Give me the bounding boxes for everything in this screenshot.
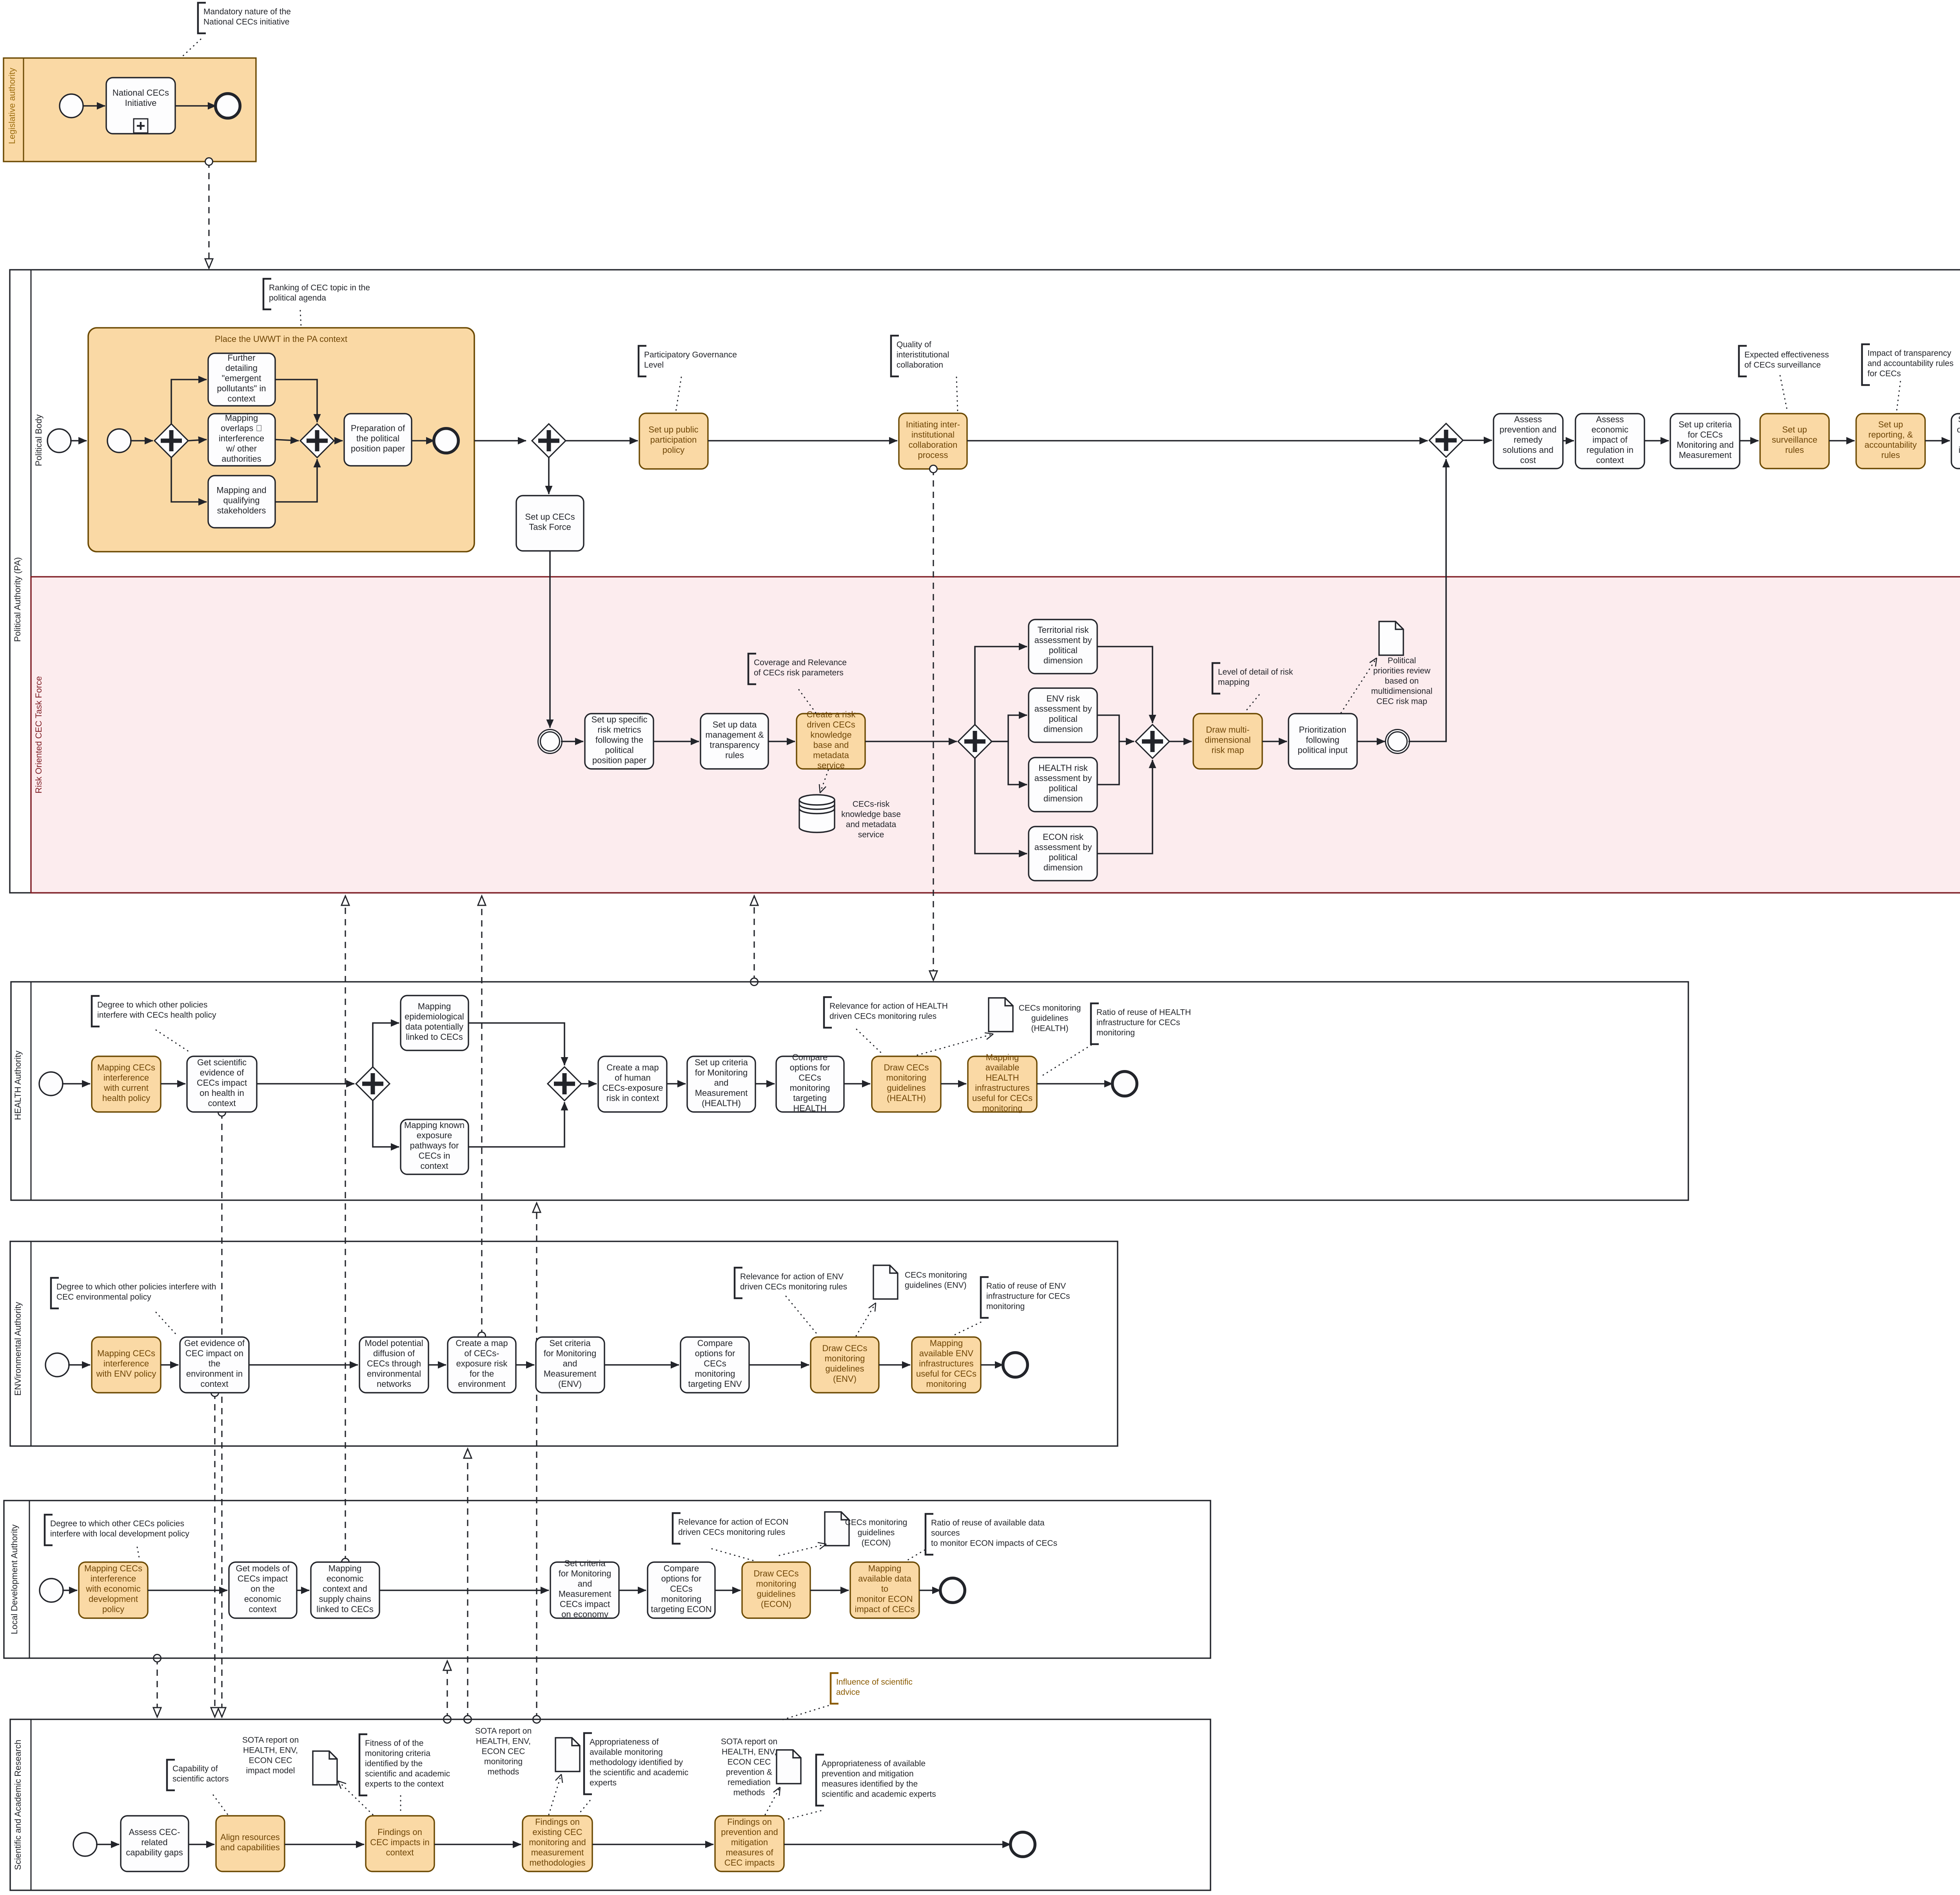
message flow HEALTH Get scientific evidence -> Scientific pool xyxy=(221,1112,222,1717)
svg-text:Local Development Authority: Local Development Authority xyxy=(9,1524,19,1634)
pool: Political Authority (PA) xyxy=(10,270,1960,893)
task: Get evidence of CEC impact on the environment xyxy=(180,1337,249,1393)
svg-text:Legislative authority: Legislative authority xyxy=(7,68,17,144)
start event (ENV) xyxy=(45,1353,69,1377)
annotation: Degree local development policy xyxy=(45,1515,53,1545)
annotation: Fitness of the monitoring criteria xyxy=(359,1734,367,1795)
annotation: Ratio of reuse of available data sources xyxy=(926,1514,933,1555)
task: Set up criteria for CECs Monitoring and Measurement xyxy=(1670,414,1740,469)
svg-text:Create a mapof CECs-exposure r: Create a mapof CECs-exposure riskfor the… xyxy=(456,1338,508,1389)
task: Draw CECs monitoring guidelines ECON xyxy=(742,1562,810,1618)
wire merge middle xyxy=(275,440,299,441)
pool: Legislative authority xyxy=(4,58,256,162)
task: Create a risk driven CECs knowledge base xyxy=(797,714,865,769)
svg-text:Set up criteriafor CECsMonitor: Set up criteriafor CECsMonitoring andMea… xyxy=(1677,420,1734,460)
message flow LocalDev Mapping economic -> task force lane xyxy=(345,896,346,1562)
task: HEALTH risk assessment xyxy=(1029,758,1097,812)
task: Set up surveillance rules xyxy=(1760,414,1829,469)
message flow Legislative -> PA pool xyxy=(208,162,209,268)
svg-text:Draw multi-dimensionalrisk map: Draw multi-dimensionalrisk map xyxy=(1205,725,1250,755)
task: Mapping and qualifying stakeholders xyxy=(208,476,275,528)
task: Model potential diffusion of CECs xyxy=(359,1337,428,1393)
message flow ENV Create a map -> task force lane xyxy=(481,896,482,1336)
pool: Scientific and Academic Research xyxy=(10,1719,1210,1890)
task: Mapping CECs interference with ENV policy xyxy=(92,1337,161,1393)
annotation: Relevance for action of ECON xyxy=(673,1513,681,1544)
annotation: Ratio of reuse of ENV infrastructure xyxy=(981,1277,989,1318)
task: Set up criteria for Monitoring and Measurement HEALTH xyxy=(687,1056,755,1112)
wire Set up CECs Task Force to link event xyxy=(549,551,551,728)
data store: CECs-risk knowledge base xyxy=(799,795,835,832)
svg-text:HEALTH Authority: HEALTH Authority xyxy=(13,1051,23,1120)
data object: CECs monitoring guidelines ECON xyxy=(825,1512,849,1546)
task: Assess prevention and remedy solutions and cost xyxy=(1494,414,1563,469)
annotation: Expected effectiveness xyxy=(1739,346,1747,376)
task: Draw CECs monitoring guidelines HEALTH xyxy=(872,1056,941,1112)
annotation: Relevance for action of ENV xyxy=(735,1268,742,1298)
wire HEALTH to join xyxy=(1097,741,1119,785)
task: Mapping economic context and supply chains xyxy=(311,1562,379,1618)
message flow Scientific -> LocalDev pool xyxy=(446,1661,448,1719)
annotation: Degree to which HEALTH policies xyxy=(92,996,100,1027)
start event (HEALTH) xyxy=(39,1072,63,1096)
annotation: Capability of scientific actors xyxy=(167,1760,175,1790)
svg-text:Set up specificrisk metricsfol: Set up specificrisk metricsfollowing the… xyxy=(591,715,647,765)
task: Mapping available data to monitor ECON impact xyxy=(850,1562,919,1618)
task: ECON risk assessment xyxy=(1029,827,1097,881)
assoc Findings prevention -> SOTA doc xyxy=(765,1787,780,1815)
parallel gateway join (subprocess) xyxy=(300,424,334,458)
svg-text:Risk Oriented CEC Task Force: Risk Oriented CEC Task Force xyxy=(34,676,44,793)
assoc to guidelines ENV doc xyxy=(856,1303,876,1336)
task: Get scientific evidence of CECs impact on health xyxy=(187,1056,257,1112)
assoc Findings CEC impacts -> SOTA doc xyxy=(338,1781,373,1815)
annotation: Degree ENV policy xyxy=(51,1278,59,1308)
message flow LocalDev pool -> Scientific pool xyxy=(156,1658,158,1717)
task: Findings on CEC impacts in context xyxy=(366,1816,434,1871)
intermediate event end (task force) xyxy=(1386,730,1410,754)
pool: Local Development Authority xyxy=(4,1501,1210,1658)
annotation: Level of detail of risk mapping xyxy=(1212,663,1220,694)
svg-text:Preparation ofthe politicalpos: Preparation ofthe politicalposition pape… xyxy=(351,423,405,454)
task: Set up rules to optimise use of existing infrastructures xyxy=(1951,414,1960,469)
wire epidemiological to join xyxy=(468,1023,564,1065)
annotation: Participatory Governance Level xyxy=(639,346,646,376)
task: Create a map of human CECs-exposure risk xyxy=(598,1056,667,1112)
wire to Further detailing xyxy=(171,380,207,424)
annotation: Impact of transparency xyxy=(1862,344,1870,385)
task: Align resources and capabilities xyxy=(216,1816,285,1871)
wire ECON to join xyxy=(1097,760,1152,854)
wire to Set up public participation policy xyxy=(566,440,638,442)
annotation: Ranking of CEC topic xyxy=(263,279,271,309)
parallel gateway after subprocess xyxy=(532,424,566,458)
task: Further detailing emergent pollutants xyxy=(208,353,275,406)
annotation: Quality of interistitutional collaboration xyxy=(891,336,899,376)
wire to HEALTH risk xyxy=(992,741,1027,785)
pool: HEALTH Authority xyxy=(11,982,1688,1200)
wire merge from top task xyxy=(275,380,317,422)
task: Draw multi-dimensional risk map xyxy=(1193,714,1262,769)
task: Preparation of the political position paper xyxy=(344,414,412,466)
svg-text:Mapping CECsinterferencewith c: Mapping CECsinterferencewith currentheal… xyxy=(97,1063,155,1103)
parallel gateway split (HEALTH) xyxy=(356,1067,390,1101)
assoc to guidelines ECON doc xyxy=(779,1544,826,1555)
data object: CECs monitoring guidelines HEALTH xyxy=(989,998,1013,1032)
end event (Legislative) xyxy=(216,94,240,118)
task: Mapping CECs interference with economic development policy xyxy=(79,1562,148,1618)
parallel gateway join (Political Body) xyxy=(1429,423,1463,457)
svg-text:Set criteriafor MonitoringandM: Set criteriafor MonitoringandMeasurement… xyxy=(559,1559,612,1619)
wire back up to Political Body gateway xyxy=(1408,459,1446,741)
wire down to Set up CECs Task Force xyxy=(548,458,550,494)
annotation: Appropriateness of available monitoring methodology xyxy=(584,1733,592,1794)
collapsed subprocess: National CECs Initiative xyxy=(106,78,175,134)
task: Findings on existing CEC monitoring methodologies xyxy=(523,1816,592,1871)
task: Get models of CECs impact on the economic context xyxy=(229,1562,297,1618)
wire subprocess to gateway xyxy=(474,440,526,442)
task: ENV risk assessment xyxy=(1029,688,1097,742)
start event (Scientific) xyxy=(73,1833,97,1856)
end event (HEALTH) xyxy=(1112,1072,1137,1096)
start event (Political Body) xyxy=(47,429,71,452)
svg-text:Mapping CECsinterferencewith E: Mapping CECsinterferencewith ENV policy xyxy=(96,1348,156,1379)
assoc task to data store xyxy=(820,770,828,793)
pool: ENVironmental Authority xyxy=(10,1241,1118,1446)
task: Mapping available ENV infrastructures xyxy=(912,1337,981,1393)
task: Territorial risk assessment xyxy=(1029,620,1097,674)
task: Draw CECs monitoring guidelines ENV xyxy=(811,1337,879,1393)
task: Mapping available HEALTH infrastructures xyxy=(968,1056,1037,1112)
wire to Mapping epidemiological xyxy=(373,1023,399,1067)
task: Compare options for CECs monitoring targeting HEALTH xyxy=(776,1056,844,1112)
task: Assess economic impact of regulation in context xyxy=(1575,414,1644,469)
assoc dotted xyxy=(181,39,201,58)
parallel gateway split (task force) xyxy=(958,725,992,758)
data object: CECs monitoring guidelines ENV xyxy=(873,1265,898,1299)
end event (ENV) xyxy=(1003,1353,1028,1377)
data object: SOTA report impact model xyxy=(313,1751,337,1785)
task: Mapping known exposure pathways xyxy=(401,1119,468,1174)
message flow Initiating collaboration -> HEALTH pool xyxy=(933,469,934,980)
end event (Scientific) xyxy=(1011,1832,1035,1857)
svg-text:Findings onexisting CECmonitor: Findings onexisting CECmonitoring andmea… xyxy=(529,1817,586,1868)
svg-text:Place the UWWT in the PA conte: Place the UWWT in the PA context xyxy=(215,334,347,344)
task: Mapping epidemiological data xyxy=(401,996,468,1050)
data object: SOTA report monitoring methods xyxy=(555,1738,580,1771)
parallel gateway join (task force) xyxy=(1136,725,1169,758)
annotation: Relevance for action of HEALTH xyxy=(824,997,832,1028)
inner start event xyxy=(107,429,131,452)
svg-text:Scientific and Academic Resear: Scientific and Academic Research xyxy=(13,1740,23,1870)
svg-text:Align resourcesand capabilitie: Align resourcesand capabilities xyxy=(220,1832,280,1852)
wire merge from bottom task xyxy=(275,459,317,502)
svg-text:Draw CECsmonitoringguidelines(: Draw CECsmonitoringguidelines(HEALTH) xyxy=(884,1063,929,1103)
parallel gateway split (subprocess) xyxy=(154,424,188,458)
task: Findings on prevention and mitigation measures xyxy=(715,1816,784,1871)
svg-text:Create a mapof humanCECs-expos: Create a mapof humanCECs-exposurerisk in… xyxy=(602,1063,663,1103)
task: Set up reporting and accountability rules xyxy=(1856,414,1925,469)
task: Initiating inter-institutional collaboration process xyxy=(899,413,967,469)
message flow HEALTH pool -> task force lane xyxy=(753,896,755,982)
assoc to Political priorities doc xyxy=(1341,658,1377,713)
wire to Mapping overlaps xyxy=(188,440,207,441)
wire exposure to join xyxy=(468,1102,564,1147)
start event (Legislative) xyxy=(60,94,83,118)
message flow ENV Get evidence -> Scientific pool xyxy=(214,1393,215,1717)
message flow Scientific -> HEALTH pool xyxy=(536,1203,537,1719)
wire to ECON risk xyxy=(975,758,1027,854)
annotation: Ratio of reuse of HEALTH infrastructure xyxy=(1091,1003,1099,1044)
task: Mapping overlaps interference xyxy=(208,414,275,466)
wire to Mapping known exposure xyxy=(373,1101,399,1147)
parallel gateway join (HEALTH) xyxy=(548,1067,581,1101)
data object: SOTA report prevention methods xyxy=(777,1750,801,1784)
intermediate event (task force) xyxy=(538,730,562,754)
task: Set up CECs Task Force xyxy=(516,496,584,551)
annotation: Mandatory nature xyxy=(198,3,206,33)
svg-text:Political Body: Political Body xyxy=(34,414,44,466)
task: Set criteria for Monitoring and Measurement CECs impact on economy xyxy=(550,1562,619,1618)
task: Compare options for CECs monitoring targeting ECON xyxy=(648,1562,715,1618)
svg-text:Mappingoverlaps interferencew: Mappingoverlaps interferencew/ otheraut… xyxy=(219,413,264,464)
svg-text:Set up CECsTask Force: Set up CECsTask Force xyxy=(525,512,575,532)
task: Prioritization following political input xyxy=(1289,714,1357,769)
lane: Risk Oriented CEC Task Force (pink) xyxy=(31,577,1960,893)
assoc to guidelines HEALTH doc xyxy=(917,1034,993,1055)
long wire to gateway xyxy=(967,440,1428,442)
task: Set up specific risk metrics xyxy=(585,714,653,769)
data object: Political priorities review xyxy=(1379,621,1403,655)
annotation: Influence of scientific advice xyxy=(831,1673,838,1704)
end event (Local Development) xyxy=(940,1578,965,1603)
wire to Mapping and qualifying xyxy=(171,458,207,502)
task: Mapping CECs interference with current health policy xyxy=(92,1056,161,1112)
svg-text:ENVironmental Authority: ENVironmental Authority xyxy=(13,1302,23,1395)
task: Set up data management and transparency rules xyxy=(701,714,768,769)
task: Assess CEC-related capability gaps xyxy=(121,1816,189,1871)
task: Set up public participation policy xyxy=(639,413,708,469)
assoc Findings existing -> SOTA doc xyxy=(549,1774,561,1815)
wire to ENV risk xyxy=(992,715,1027,741)
wire Territorial to join xyxy=(1097,647,1152,723)
message flow Scientific -> ENV pool xyxy=(467,1449,468,1719)
svg-text:Political Authority (PA): Political Authority (PA) xyxy=(13,557,22,642)
svg-text:Compareoptions forCECsmonitori: Compareoptions forCECsmonitoringtargetin… xyxy=(790,1052,830,1113)
wire to Territorial risk xyxy=(975,647,1027,725)
svg-text:Mapping andqualifyingstakehold: Mapping andqualifyingstakeholders xyxy=(216,485,266,516)
task: Set criteria for Monitoring and Measurement ENV xyxy=(536,1337,604,1393)
expanded subprocess: Place the UWWT in the PA context xyxy=(88,328,474,552)
task: Create a map of CECs-exposure risk for environment xyxy=(448,1337,516,1393)
start event (Local Development) xyxy=(40,1579,63,1602)
inner end event xyxy=(434,429,459,453)
task: Compare options for CECs monitoring targeting ENV xyxy=(681,1337,749,1393)
annotation: Appropriateness of available prevention xyxy=(816,1755,824,1806)
annotation: Coverage and Relevance xyxy=(748,654,756,684)
wire ENV to join xyxy=(1097,715,1134,741)
